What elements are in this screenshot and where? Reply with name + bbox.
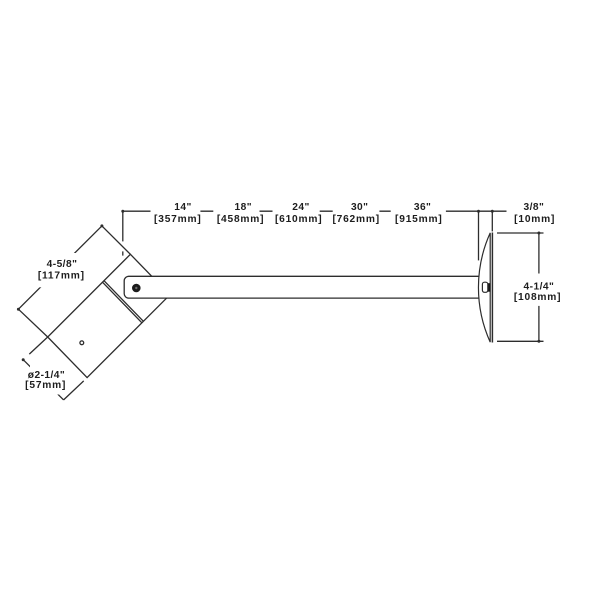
- svg-text:[357mm]: [357mm]: [154, 214, 202, 225]
- svg-text:14": 14": [174, 202, 192, 213]
- svg-text:[610mm]: [610mm]: [275, 214, 323, 225]
- svg-text:18": 18": [235, 202, 253, 213]
- svg-text:[10mm]: [10mm]: [514, 214, 555, 225]
- svg-text:[108mm]: [108mm]: [514, 292, 562, 303]
- svg-text:36": 36": [414, 202, 432, 213]
- svg-text:[762mm]: [762mm]: [332, 214, 380, 225]
- svg-text:[117mm]: [117mm]: [38, 270, 85, 281]
- svg-text:30": 30": [351, 202, 369, 213]
- svg-text:[458mm]: [458mm]: [217, 214, 265, 225]
- svg-text:[915mm]: [915mm]: [395, 214, 443, 225]
- svg-text:24": 24": [292, 202, 310, 213]
- svg-text:4-1/4": 4-1/4": [524, 281, 555, 292]
- svg-text:[57mm]: [57mm]: [25, 380, 66, 391]
- svg-text:4-5/8": 4-5/8": [47, 259, 78, 270]
- svg-text:3/8": 3/8": [524, 202, 545, 213]
